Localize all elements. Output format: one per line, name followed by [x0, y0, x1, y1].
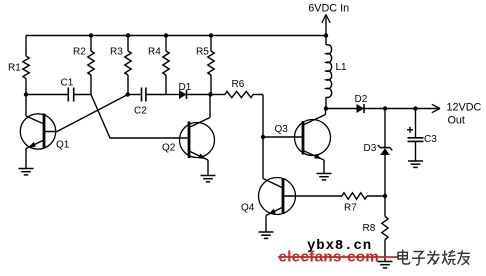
svg-text:R2: R2 [73, 47, 86, 58]
watermark chinese 电 [403, 250, 410, 265]
junction C3 top node [413, 106, 417, 110]
resistor R4 [163, 51, 169, 75]
svg-text:R3: R3 [110, 47, 123, 58]
wire node to C2 [128, 94, 141, 96]
wire R6 to corner [253, 94, 263, 96]
wire R4 top lead [165, 36, 167, 52]
svg-text:C2: C2 [134, 106, 147, 117]
wire Q4 emitter to ground [265, 216, 267, 232]
wire R4 bottom lead [165, 75, 167, 95]
svg-text:D3: D3 [364, 143, 377, 154]
svg-text:Q2: Q2 [162, 143, 176, 154]
wire node to D2 [326, 108, 357, 110]
wire D2 to output [365, 108, 386, 110]
arrow 6VDC input [325, 15, 327, 46]
wire R7 to node [367, 195, 385, 197]
wire lower bus left [26, 94, 68, 96]
svg-text:C1: C1 [61, 78, 74, 89]
transistor Q2 [180, 123, 215, 158]
wire C3 top lead [415, 109, 417, 138]
diode D2 [357, 104, 365, 113]
wire output mid [385, 108, 416, 110]
watermark chinese 烧 [442, 251, 447, 264]
svg-text:R6: R6 [232, 79, 245, 90]
transistor Q3 [295, 120, 331, 156]
resistor R8 [382, 217, 388, 240]
junction L1/Q3-collector/D2 node [324, 106, 328, 110]
ground C3 [408, 160, 423, 162]
wire Q1 emitter to ground [25, 149, 27, 169]
arrow 12VDC output [416, 108, 439, 110]
svg-text:D2: D2 [355, 94, 368, 105]
svg-text:Q3: Q3 [275, 124, 289, 135]
wire Q1 collector lead [25, 95, 27, 117]
wire R3 top lead [127, 36, 129, 52]
wire R5 bottom lead [210, 75, 212, 95]
resistor R2 [88, 51, 94, 75]
wire C3 to ground [415, 142, 417, 161]
inductor L1 [326, 45, 332, 98]
junction Q3 base node [261, 135, 265, 139]
capacitor C2 [141, 88, 143, 102]
watermark chinese 子 [414, 252, 424, 256]
junction D3/R7/R8 node [383, 194, 387, 198]
svg-text:C3: C3 [424, 134, 437, 145]
ground Q4 [259, 231, 274, 233]
svg-text:Out: Out [448, 114, 465, 126]
wire cross-couple to Q2 base [91, 95, 189, 139]
ground Q1 [19, 168, 34, 170]
wire R3 bottom lead [127, 75, 129, 95]
wire top supply rail [26, 35, 326, 37]
watermark strikethrough [278, 256, 399, 258]
ground Q2 [201, 175, 216, 177]
svg-text:D1: D1 [179, 82, 192, 93]
svg-text:R5: R5 [196, 47, 209, 58]
resistor R3 [125, 51, 131, 75]
resistor R5 [208, 51, 214, 75]
resistor R6 [225, 91, 253, 97]
wire D3 anode to node [384, 155, 386, 196]
wire R6 corner down [262, 95, 264, 179]
junction R5/Q2-collector node [208, 92, 212, 96]
resistor R7 [342, 193, 367, 199]
wire Q3 collector lead [325, 109, 327, 115]
wire Q2 emitter to ground [207, 160, 209, 175]
wire R8 top lead [384, 196, 386, 217]
svg-text:L1: L1 [336, 62, 348, 73]
svg-text:R4: R4 [148, 47, 161, 58]
capacitor C3 [408, 137, 424, 139]
wire R5 node to R6 [211, 94, 225, 96]
capacitor C1 [67, 88, 69, 102]
wire Q3 base lead [263, 136, 303, 138]
wire cross-couple Q1 base to C2 node [44, 95, 128, 132]
wire R5 top lead [210, 36, 212, 52]
ground Q3 [317, 173, 332, 175]
wire L1 bottom lead [325, 97, 327, 108]
wire R2 top lead [90, 36, 92, 52]
wire D3 top lead [384, 109, 386, 148]
transistor Q4 [259, 178, 296, 215]
resistor R1 [23, 56, 29, 79]
svg-text:6VDC In: 6VDC In [308, 3, 349, 15]
watermark chinese 友 [458, 252, 470, 254]
wire C1 to R2 node [74, 94, 91, 96]
zener diode D3 [380, 148, 390, 155]
transistor Q1 [20, 114, 55, 149]
svg-text:R7: R7 [344, 203, 357, 214]
junction R3 top [126, 33, 130, 37]
junction R1/bus [24, 92, 28, 96]
wire R1 bottom to node [25, 79, 27, 95]
svg-text:12VDC: 12VDC [447, 101, 482, 113]
junction R5 top [209, 33, 213, 37]
junction top rail / supply [324, 33, 328, 37]
junction R2 top [89, 33, 93, 37]
svg-text:Q1: Q1 [56, 140, 70, 151]
svg-text:Q4: Q4 [241, 203, 255, 214]
wire R4 node to D1 [166, 94, 179, 96]
wire R2 bottom lead [90, 75, 92, 95]
junction D3 top node [383, 106, 387, 110]
wire left rail (R1 branch) [25, 36, 27, 57]
wire C2 to R4 node [147, 94, 166, 96]
diode D1 [179, 90, 187, 99]
wire D1 to R5 node [187, 94, 211, 96]
svg-text:R1: R1 [8, 63, 21, 74]
wire Q4 base lead [283, 195, 342, 197]
wire Q2 collector lead [209, 95, 211, 118]
junction R3/C2/Q1-base node [126, 92, 130, 96]
ground R8 [378, 261, 393, 263]
svg-text:R8: R8 [363, 223, 376, 234]
watermark chinese 发 [430, 251, 432, 253]
junction R4 top [164, 33, 168, 37]
wire R8 to ground [384, 240, 386, 262]
wire Q3 emitter to ground [323, 160, 325, 173]
